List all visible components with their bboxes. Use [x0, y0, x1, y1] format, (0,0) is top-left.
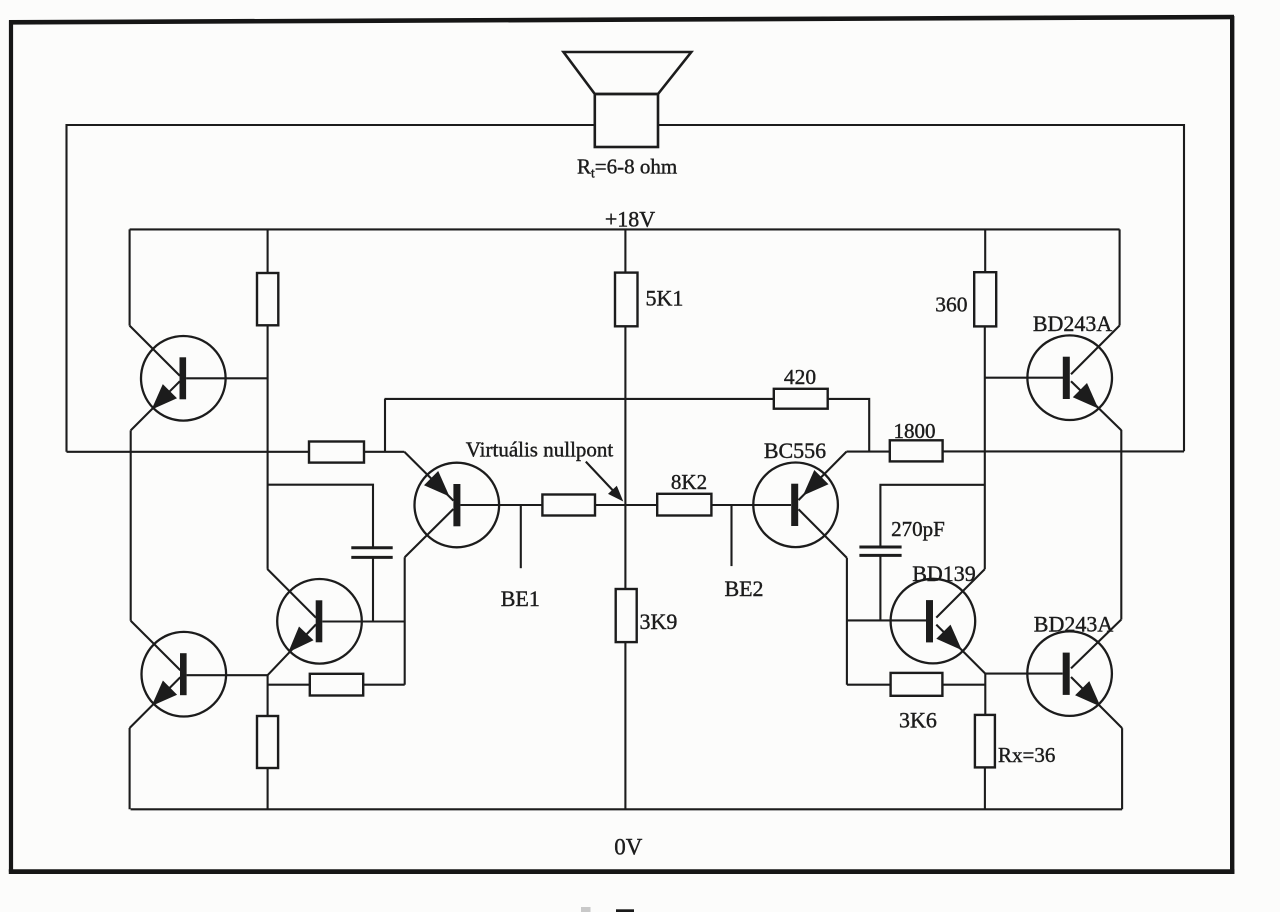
wire 3K6 left lead [847, 684, 891, 686]
wire 420 right lead [828, 399, 870, 452]
resistor R4 [542, 495, 595, 516]
resistor R1 [257, 273, 278, 325]
wire Q7 base line [985, 377, 1064, 379]
wire C1 bottom lead [372, 557, 374, 621]
resistor 420 [774, 389, 828, 409]
capacitor 270pF [859, 547, 901, 555]
svg-text:Virtuális nullpont: Virtuális nullpont [466, 438, 614, 462]
wire 420 line drop [384, 399, 386, 452]
transistor Q8 BD243A [1027, 620, 1122, 729]
wire 270pF bottom lead [879, 555, 881, 620]
svg-text:BE2: BE2 [724, 576, 763, 601]
wire 5K1 bottom run [624, 326, 626, 505]
wire 5K1 top lead [624, 229, 626, 272]
power rail +18V [130, 228, 1120, 230]
wire Q2 emitter to 1800 [847, 451, 890, 453]
wire Q4 emitter to 0V [129, 728, 131, 809]
resistor R7 [257, 716, 278, 768]
wire R4 right lead [595, 504, 625, 506]
wire C1 top lead [268, 485, 373, 548]
svg-text:420: 420 [784, 365, 816, 389]
transistor Q5 [267, 569, 405, 675]
wire center node to 3K9 [624, 505, 626, 589]
wire output node vertical [1120, 430, 1122, 620]
wire 420 left line [385, 398, 774, 400]
wire speaker right [658, 125, 1184, 451]
transistor Q4 [130, 621, 268, 728]
wire 3K6 right lead [942, 684, 985, 686]
wire 8K2 left lead [625, 504, 657, 506]
wire Q5 base riser [404, 557, 406, 684]
resistor 5K1 [615, 273, 638, 327]
wire 270pF top lead [880, 485, 984, 547]
svg-text:Rx=36: Rx=36 [998, 743, 1055, 767]
svg-text:360: 360 [935, 293, 967, 317]
node Virtualis nullpont [586, 462, 624, 502]
wire R7 bottom lead [267, 768, 269, 809]
wire Rx bottom lead [984, 767, 986, 809]
transistor Q7 BD243A [1027, 326, 1121, 431]
wire speaker left [67, 125, 595, 452]
wire Rx top lead [984, 674, 986, 715]
svg-text:0V: 0V [614, 835, 643, 860]
wire BE2 stub [730, 505, 732, 566]
wire 8K2 right lead [711, 504, 791, 506]
resistor 3K6 [891, 673, 943, 696]
resistor 360 [974, 272, 996, 326]
svg-text:3K9: 3K9 [640, 609, 678, 634]
svg-text:+18V: +18V [605, 207, 655, 232]
wire right bus vertical [984, 326, 986, 569]
wire R1 top lead [267, 229, 269, 273]
wire Q8 emitter to 0V [1121, 728, 1123, 809]
resistor 3K9 [616, 589, 637, 642]
wire BE1 stub [520, 505, 522, 568]
wire R1 bottom run [267, 325, 269, 569]
wire feedback left lead [67, 451, 310, 453]
transistor Q2 BC556 [753, 452, 847, 558]
svg-text:1800: 1800 [894, 419, 936, 443]
wire Q8 base line [985, 673, 1062, 675]
wire R6 right lead [363, 684, 405, 686]
resistor 1800 [890, 440, 943, 461]
svg-text:5K1: 5K1 [646, 286, 684, 311]
wire BD139 base line [847, 619, 926, 621]
capacitor C1 [351, 548, 392, 558]
speaker LS1 Rt=6-8 ohm [564, 52, 692, 147]
svg-text:BD139: BD139 [912, 561, 976, 586]
resistor Rx=36 [975, 715, 995, 768]
wire feedback right lead [364, 451, 404, 453]
wire Q2 collector drop [846, 558, 848, 685]
transistor Q6 BD139 [891, 569, 986, 674]
resistor R6 [310, 674, 363, 696]
transistor Q1 [130, 326, 268, 431]
svg-text:BE1: BE1 [501, 586, 540, 611]
wire 360 top lead [984, 229, 986, 272]
svg-text:3K6: 3K6 [899, 708, 937, 733]
wire rail right drop [1119, 229, 1121, 325]
ground rail 0V [131, 808, 1123, 810]
wire R6 left lead [268, 684, 310, 686]
resistor 8K2 [657, 494, 711, 516]
wire 1800 right run [943, 450, 1184, 452]
svg-text:BD243A: BD243A [1034, 612, 1114, 637]
svg-text:BD243A: BD243A [1033, 311, 1113, 336]
wire 3K9 bottom lead [624, 642, 626, 809]
svg-text:BC556: BC556 [764, 438, 826, 463]
svg-text:8K2: 8K2 [671, 470, 707, 494]
wire Q1 emitter to Q4 collector [130, 430, 132, 620]
transistor Q3 [404, 452, 542, 558]
wire rail left drop [129, 229, 131, 325]
svg-text:270pF: 270pF [891, 517, 945, 541]
wire node A drop [267, 675, 269, 716]
resistor R2 feedback [309, 442, 364, 463]
